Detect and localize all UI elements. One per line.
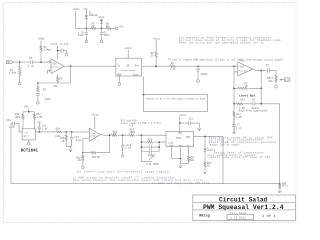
- svg-text:Need low noise and low impedan: Need low noise and low impedance output …: [179, 40, 265, 44]
- svg-text:ICM: ICM: [177, 132, 182, 135]
- title row line1: [193, 202, 296, 204]
- junction row1 left: [141, 141, 143, 143]
- capacitor C4 bypass: [58, 43, 69, 54]
- wire plus input stub: [47, 70, 51, 74]
- svg-text:TC1044/7660: TC1044/7660: [121, 69, 136, 72]
- capacitor C16 900pF: [196, 66, 208, 79]
- junction C11: [39, 131, 41, 133]
- svg-text:+Vcc: +Vcc: [239, 60, 245, 63]
- wire output column: [260, 71, 262, 104]
- wire U4 out: [194, 136, 223, 183]
- wire power bus: [75, 27, 91, 29]
- wire vcc U4: [179, 117, 181, 132]
- junction row2 left: [141, 146, 143, 148]
- capacitor C1: [28, 57, 34, 68]
- resistor R4: [40, 40, 51, 62]
- op-amp U1A: [49, 59, 64, 74]
- capacitor C10: [7, 119, 23, 132]
- svg-text:4.7k: 4.7k: [170, 68, 176, 71]
- capacitor C17: [149, 145, 151, 149]
- op-amp U1B: [238, 62, 253, 76]
- rc rail right: [158, 142, 160, 152]
- capacitor C15 bypass: [180, 117, 200, 128]
- ground chevron U2 rc: [69, 149, 72, 151]
- svg-text:+5v: +5v: [119, 26, 124, 29]
- connector output SPK: [284, 78, 290, 82]
- wire C9 to pot: [269, 71, 276, 76]
- resistor R2: [53, 75, 63, 88]
- LED LED1: [204, 148, 209, 162]
- svg-text:OUT: OUT: [186, 136, 191, 139]
- resistor R9: [170, 62, 176, 71]
- junction feedback left: [37, 82, 39, 84]
- resistor R21: [91, 152, 100, 159]
- junction bus a: [86, 28, 88, 30]
- junction gnd pins: [180, 158, 182, 160]
- svg-text:gmCl: gmCl: [24, 135, 30, 138]
- wire U4 gnd pins: [172, 147, 181, 166]
- svg-text:+Vcc2: +Vcc2: [91, 114, 99, 117]
- svg-text:Do lowers loop gain for extrem: Do lowers loop gain for extremely large …: [78, 170, 171, 174]
- svg-text:OUT: OUT: [285, 79, 290, 82]
- resistor R1: [9, 62, 21, 82]
- svg-text:+Vb: +Vb: [24, 105, 29, 108]
- junction led: [204, 136, 206, 138]
- svg-text:GND: GND: [117, 73, 122, 76]
- junction input R1: [19, 61, 21, 63]
- ground pad C6: [85, 40, 88, 43]
- resistor R6: [106, 27, 111, 29]
- resistor R10: [14, 112, 24, 129]
- junction vcc U1A: [57, 50, 59, 52]
- svg-text:14k: 14k: [77, 159, 82, 162]
- svg-text:150: 150: [113, 132, 118, 135]
- svg-text:LM393: LM393: [90, 135, 97, 138]
- resistor R11: [33, 112, 42, 129]
- ground pad R1: [18, 82, 21, 85]
- IC U3 TC7660: [116, 58, 142, 76]
- rc row1 wire: [141, 141, 166, 143]
- rc row3 wire: [141, 151, 159, 153]
- resistor R13: [236, 103, 242, 105]
- svg-text:1 Meg: 1 Meg: [44, 49, 52, 52]
- junction hysteresis: [82, 152, 84, 154]
- junction row2 right: [158, 146, 160, 148]
- wire bottom feedback: [11, 183, 280, 185]
- svg-text:to keep out duty cycle off tim: to keep out duty cycle off time: [152, 181, 210, 185]
- ground pad C5: [37, 102, 40, 105]
- terminal +V out: [115, 27, 118, 30]
- wire U1A output: [64, 65, 116, 67]
- junction U1A out: [70, 65, 72, 67]
- ground pad C16: [197, 80, 200, 83]
- wire to comparator: [175, 65, 238, 67]
- capacitor C13: [121, 135, 132, 154]
- svg-text:R13: R13: [240, 99, 245, 102]
- diode D1: [85, 15, 88, 28]
- feedback wire R7: [234, 87, 261, 89]
- wire U3 cap pin to callout: [143, 76, 145, 94]
- ground pad U5: [28, 142, 31, 145]
- svg-text:+Vcc1: +Vcc1: [125, 47, 133, 50]
- svg-text:900pF: 900pF: [201, 73, 209, 76]
- svg-text:MCP6022: MCP6022: [239, 69, 249, 72]
- svg-text:Out: Out: [135, 65, 140, 68]
- callout box switch: [143, 94, 208, 112]
- svg-text:C10: C10: [7, 119, 12, 122]
- svg-text:about 2dB at compr: about 2dB at compr: [210, 143, 240, 147]
- ground pad pot: [275, 85, 278, 88]
- wire right feedback column: [279, 104, 281, 184]
- svg-text:.47uF: .47uF: [75, 139, 83, 142]
- svg-text:1 uF: 1 uF: [28, 65, 34, 68]
- wire plus input U2: [83, 139, 89, 153]
- junction R8: [155, 65, 157, 67]
- svg-text:(small) duty cycle off time of: (small) duty cycle off time of 94%: [207, 155, 270, 159]
- junction hysteresis top: [109, 134, 111, 136]
- title row line2: [193, 209, 296, 211]
- capacitor C6: [78, 28, 88, 40]
- svg-text:10k: 10k: [268, 80, 273, 83]
- resistor R7: [238, 82, 248, 89]
- resistor R17: [129, 128, 136, 136]
- svg-text:scale range (4 PWM f-p 0-5V): scale range (4 PWM f-p 0-5V): [121, 122, 162, 125]
- resistor R12: [233, 112, 242, 125]
- junction bottom right: [279, 183, 281, 185]
- ground pad C2: [100, 40, 103, 43]
- svg-text:+Vb: +Vb: [83, 8, 88, 11]
- svg-text:CND: CND: [179, 144, 184, 147]
- resistor R20: [181, 147, 195, 164]
- wire input b: [32, 61, 51, 63]
- ground pad C4: [65, 54, 68, 57]
- svg-text:+Vcc1: +Vcc1: [97, 16, 105, 19]
- svg-text:+Vcc1: +Vcc1: [50, 43, 58, 46]
- svg-text:C15: C15: [189, 117, 194, 120]
- capacitor C18: [149, 150, 151, 154]
- svg-text:1 uF: 1 uF: [125, 147, 131, 150]
- junction comparator input: [233, 65, 235, 67]
- resistor R16: [111, 130, 117, 136]
- svg-text:POT1: POT1: [282, 185, 288, 188]
- svg-text:+Vcc1: +Vcc1: [153, 37, 161, 40]
- svg-text:High Freq Compliance: High Freq Compliance: [239, 110, 268, 113]
- junction vb: [28, 111, 30, 113]
- wire vcc stub U2: [94, 116, 96, 129]
- capacitor C7: [232, 124, 242, 133]
- junction bias: [40, 61, 42, 63]
- svg-text:10k: 10k: [53, 85, 58, 88]
- IC U4 7555: [166, 132, 194, 148]
- resistor R3: [37, 83, 47, 93]
- wire diode feed: [85, 11, 87, 16]
- wire rc join: [66, 146, 72, 149]
- svg-text:+Vbat: +Vbat: [73, 8, 81, 11]
- ground chevron C15: [198, 128, 201, 130]
- wire left column: [10, 124, 12, 184]
- svg-text:Cap+: Cap+: [133, 73, 139, 76]
- rc rail left: [140, 135, 142, 161]
- wire U1B output: [253, 69, 267, 71]
- svg-text:1-12-2013: 1-12-2013: [231, 217, 247, 220]
- wire battery drop: [74, 11, 76, 29]
- trimmer arrow: [149, 156, 153, 160]
- svg-text:Level Bal: Level Bal: [239, 93, 255, 97]
- svg-text:1 uF: 1 uF: [236, 127, 242, 130]
- wire U3 gnd pin: [118, 76, 120, 83]
- svg-text:1.8M: 1.8M: [36, 116, 42, 119]
- svg-text:U1B: U1B: [240, 65, 245, 68]
- capacitor C12: [70, 132, 82, 146]
- wire bus middle: [96, 27, 106, 29]
- svg-text:100k: 100k: [14, 116, 20, 119]
- title block box: [193, 195, 296, 221]
- svg-text:R14: R14: [56, 128, 61, 131]
- IC U5 DCT: [22, 129, 35, 140]
- potentiometer POT1 out: [267, 75, 277, 85]
- wire vb node: [23, 108, 34, 112]
- diode D2: [100, 18, 103, 28]
- level bal wire: [234, 103, 280, 105]
- ground pad R18: [82, 166, 85, 169]
- svg-text:.1uF: .1uF: [63, 43, 69, 46]
- svg-text:MCP6022: MCP6022: [51, 65, 61, 68]
- resistor R5: [91, 27, 96, 29]
- svg-text:10uF: 10uF: [78, 34, 84, 37]
- junction row1 right: [158, 141, 160, 143]
- wire vcc stub U3: [127, 50, 129, 59]
- junction lb right: [260, 103, 262, 105]
- capacitor C5: [36, 93, 51, 101]
- ground pad U3: [118, 83, 121, 86]
- rc row2 wire: [141, 146, 159, 148]
- svg-text:DCT1841: DCT1841: [21, 150, 39, 154]
- svg-text:100pF: 100pF: [148, 154, 156, 157]
- svg-text:1 Meg: 1 Meg: [9, 72, 17, 75]
- svg-text:PWM Squeasal Ver1.2.4: PWM Squeasal Ver1.2.4: [203, 204, 284, 211]
- wire feedback down: [38, 66, 71, 83]
- resistor R19: [147, 138, 153, 143]
- capacitor C2: [100, 28, 110, 40]
- wire vcc stub U1A: [57, 46, 59, 59]
- junction C13: [122, 134, 124, 136]
- resistor R14: [55, 128, 62, 138]
- resistor R8: [151, 40, 158, 66]
- capacitor C9: [266, 64, 270, 73]
- wire U3 out to opamp: [142, 65, 170, 67]
- svg-text:10uF: 10uF: [104, 34, 110, 37]
- svg-text:10k: 10k: [190, 159, 195, 162]
- svg-text:1.2M: 1.2M: [236, 116, 242, 119]
- svg-text:100k: 100k: [130, 131, 136, 134]
- junction C12: [71, 131, 73, 133]
- junction rc rail top: [141, 134, 143, 136]
- junction U1B out: [260, 70, 262, 72]
- junction lb left: [233, 103, 235, 105]
- svg-text:1 uF: 1 uF: [9, 126, 15, 129]
- wire U5 gnd: [28, 140, 30, 143]
- svg-text:10uF: 10uF: [45, 98, 51, 101]
- rc bottom wire: [141, 161, 152, 163]
- title file cell: [227, 212, 254, 219]
- svg-text:Circuit Salad: Circuit Salad: [219, 196, 268, 203]
- resistor R18: [76, 153, 84, 167]
- wire input: [13, 61, 29, 63]
- ground bar C7: [232, 133, 236, 134]
- resistor R15: [60, 132, 67, 146]
- svg-text:R19: R19: [148, 138, 153, 141]
- junction bus b: [101, 28, 103, 30]
- svg-text:1 of 1: 1 of 1: [262, 214, 276, 219]
- ground chevron POT2: [278, 190, 281, 192]
- junction fb left: [233, 88, 235, 90]
- svg-text:7555: 7555: [176, 137, 182, 140]
- svg-text:4.1: 4.1: [129, 125, 134, 128]
- pot wiper arrow: [280, 79, 284, 81]
- potentiometer POT2: [279, 182, 289, 190]
- capacitor C8: [253, 102, 255, 106]
- svg-text:Switch is at 4.1V when gate vo: Switch is at 4.1V when gate voltage is h…: [146, 98, 206, 101]
- ground chevron R22: [203, 172, 206, 174]
- wire led column: [204, 136, 206, 148]
- junction R15: [65, 131, 67, 133]
- capacitor C11: [37, 122, 48, 132]
- wire dct to opamp: [39, 131, 89, 133]
- svg-text:RRing: RRing: [199, 214, 210, 218]
- hysteresis wire: [83, 135, 110, 153]
- junction vcc U4: [179, 122, 181, 124]
- wire U5 out: [35, 131, 39, 133]
- op-amp U2: [89, 128, 100, 141]
- connector J1 input: [7, 61, 14, 65]
- svg-text:P3 pad 17 remove PWM modulator: P3 pad 17 remove PWM modulator (if pin i…: [168, 58, 284, 61]
- svg-text:+Vbat: +Vbat: [37, 38, 45, 41]
- junction fb right: [260, 88, 262, 90]
- ground pad C13: [121, 155, 124, 158]
- svg-text:1 uF: 1 uF: [42, 127, 48, 130]
- wire inverting column: [234, 66, 238, 133]
- svg-text:4-40 TRIM: 4-40 TRIM: [145, 163, 158, 166]
- wire U2 out: [100, 134, 166, 137]
- wire bus end: [111, 27, 115, 29]
- resistor R22: [204, 162, 212, 172]
- ground chevron U4: [179, 166, 182, 168]
- junction C16: [197, 65, 199, 67]
